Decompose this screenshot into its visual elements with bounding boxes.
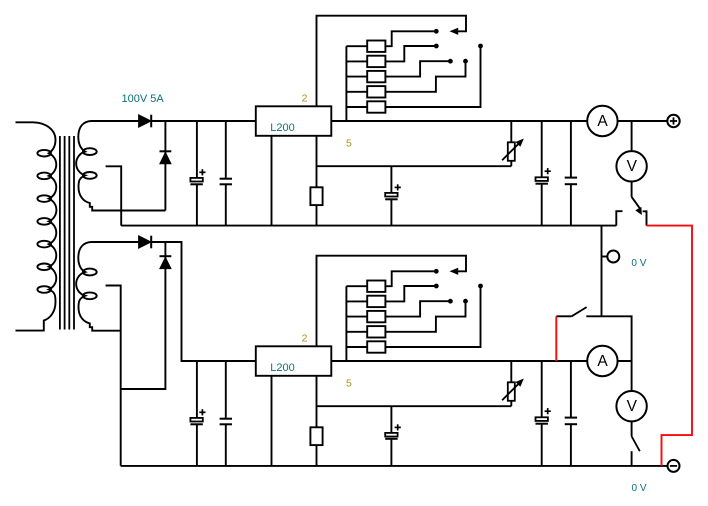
- wire positive rail 2: [331, 360, 631, 362]
- resistor R1: [346, 45, 367, 47]
- resistor R8: [346, 300, 367, 302]
- capacitor C9 electrolytic: [541, 361, 543, 417]
- capacitor C2: [225, 121, 227, 179]
- regulator U1 L200: [256, 106, 331, 136]
- rotary switch SW2 contacts: [434, 269, 439, 274]
- svg-text:0 V: 0 V: [632, 483, 647, 494]
- diode D3: [139, 236, 152, 249]
- svg-text:V: V: [627, 398, 638, 415]
- resistor R3: [346, 76, 367, 78]
- voltmeter V1: [616, 151, 646, 181]
- capacitor C8 electrolytic: [390, 406, 392, 433]
- wire U2 pin 5: [317, 376, 512, 406]
- wire to 0V terminal: [601, 226, 603, 317]
- wire secondary 2 feed to U2: [92, 242, 256, 361]
- transformer T1 primary winding: [16, 122, 57, 330]
- capacitor C6 electrolytic: [196, 361, 198, 418]
- switch S2: [556, 315, 571, 317]
- terminal positive: [667, 115, 679, 127]
- diode D4: [121, 242, 166, 389]
- resistor R10: [346, 331, 367, 333]
- svg-text:100V 5A: 100V 5A: [122, 93, 165, 105]
- wire U1 ground pin: [271, 136, 273, 226]
- resistor R5: [346, 106, 367, 108]
- wire U1 pin 5: [317, 136, 512, 166]
- svg-text:A: A: [597, 353, 608, 370]
- resistor R6: [316, 166, 318, 187]
- resistor R7: [346, 285, 367, 287]
- capacitor C5: [570, 121, 572, 178]
- ammeter A2: [587, 346, 617, 376]
- resistor network bus 1: [345, 46, 347, 121]
- diode D2: [164, 121, 166, 211]
- capacitor C10: [570, 361, 572, 418]
- transformer secondary winding S1: [76, 121, 165, 211]
- svg-text:V: V: [627, 158, 638, 175]
- terminal 0V upper: [607, 251, 619, 263]
- switch S1 fixed contact: [616, 211, 622, 225]
- transformer secondary winding S2: [76, 242, 138, 331]
- wire positive rail 1: [92, 120, 668, 122]
- potentiometer P2: [510, 361, 512, 382]
- wire 0V bus 2: [121, 465, 668, 467]
- wire 0V bus 1: [121, 225, 616, 227]
- wire U2 ground pin: [271, 376, 273, 466]
- svg-text:A: A: [597, 113, 608, 130]
- capacitor C7: [225, 361, 227, 419]
- red wire to rail 2: [555, 316, 557, 361]
- svg-text:L200: L200: [270, 362, 294, 374]
- transformer core: [59, 136, 61, 330]
- voltmeter V2: [616, 391, 646, 421]
- switch S3: [632, 436, 640, 451]
- rotary switch SW1 contacts: [434, 29, 439, 34]
- terminal negative: [668, 460, 680, 472]
- switch S1 blade: [632, 197, 640, 208]
- resistor R9: [346, 316, 367, 318]
- rotary switch SW2 wiper arm: [317, 256, 467, 347]
- svg-text:0 V: 0 V: [631, 258, 646, 269]
- secondary S1 centre tap wire: [106, 166, 122, 225]
- red wire series link: [647, 226, 693, 466]
- resistor R2: [346, 60, 367, 62]
- resistor R12: [316, 406, 318, 427]
- capacitor C4 electrolytic: [541, 121, 543, 177]
- resistor R11: [346, 346, 367, 348]
- resistor R4: [346, 91, 367, 93]
- resistor network bus 2: [345, 286, 347, 361]
- regulator U2 L200: [256, 346, 331, 376]
- wire to voltmeter V1: [631, 121, 633, 151]
- capacitor C3 electrolytic: [390, 166, 392, 193]
- svg-text:2: 2: [302, 332, 308, 344]
- ammeter A1: [587, 106, 617, 136]
- svg-text:2: 2: [302, 92, 308, 104]
- potentiometer P1: [510, 121, 512, 142]
- rotary switch SW1 wiper arm: [317, 16, 467, 107]
- svg-text:5: 5: [346, 377, 352, 389]
- svg-text:L200: L200: [270, 122, 294, 134]
- capacitor C1 electrolytic: [196, 121, 198, 178]
- secondary S2 centre tap wire: [106, 286, 121, 466]
- svg-text:5: 5: [346, 137, 352, 149]
- diode D1: [139, 115, 152, 128]
